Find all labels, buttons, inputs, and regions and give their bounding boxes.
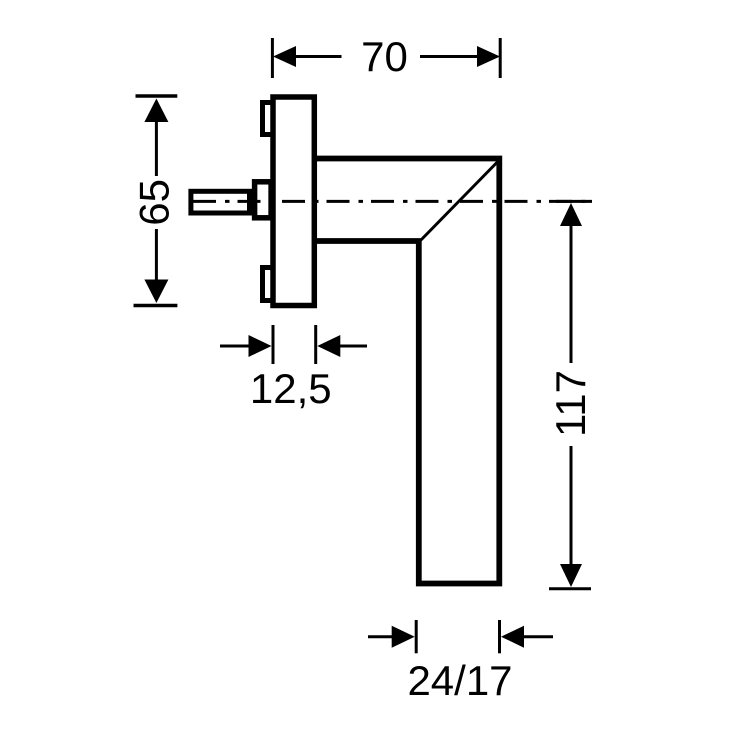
dim 12,5: right arrow (317, 335, 340, 357)
dim 12,5: right extension line (314, 325, 317, 364)
svg-text:12,5: 12,5 (250, 365, 332, 412)
handle body outline (310, 159, 499, 584)
dim 12,5: left shaft (220, 345, 249, 348)
dim 70: right arrow (477, 46, 500, 67)
dim 24/17: right arrow (501, 626, 524, 648)
dim 117: lower shaft (570, 446, 573, 565)
dim 65: top tick (136, 94, 178, 98)
dim 117: top tick (556, 200, 592, 203)
dim 24/17: left arrow (392, 626, 415, 648)
dim 65: upper shaft (155, 121, 158, 177)
dim 70: right extension line (499, 38, 502, 78)
dim 24/17: left extension line (415, 620, 418, 653)
rose plate (273, 97, 314, 306)
dim 65: top arrow (144, 99, 168, 123)
miter diagonal line (420, 160, 500, 242)
top screw lug (263, 103, 274, 135)
dim 70: left shaft (295, 55, 342, 58)
dim 65: bottom arrow (144, 280, 168, 304)
dim 24/17: right shaft (523, 635, 553, 638)
spindle bar (191, 191, 250, 213)
dim 117: top arrow (560, 203, 582, 226)
bottom screw lug (263, 268, 274, 301)
dim 24/17: left shaft (368, 635, 393, 638)
svg-text:70: 70 (361, 33, 408, 80)
svg-text:117: 117 (547, 370, 594, 437)
dim 117: bottom tick (549, 587, 591, 590)
dim 65: bottom tick (134, 304, 178, 308)
svg-text:65: 65 (130, 179, 177, 226)
center line (dash-dot axis) (193, 200, 592, 203)
dim 117: bottom arrow (560, 564, 582, 587)
dim 12,5: left arrow (249, 335, 272, 357)
dim 65: lower shaft (155, 229, 158, 281)
spindle block (255, 182, 272, 218)
dim 117: upper shaft (570, 225, 573, 363)
svg-text:24/17: 24/17 (407, 657, 512, 704)
dim 70: left extension line (271, 38, 274, 78)
dim 12,5: left extension line (272, 325, 275, 364)
dim 24/17: right extension line (498, 620, 501, 653)
dim 12,5: right shaft (339, 345, 367, 348)
dim 70: right shaft (420, 55, 478, 58)
dim 70: left arrow (273, 46, 296, 67)
